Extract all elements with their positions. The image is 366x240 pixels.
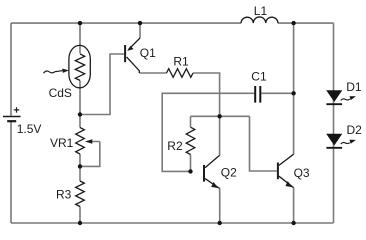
transistor Q3 emitter with NPN arrow <box>279 176 294 187</box>
photocell CdS light arrow <box>44 69 69 74</box>
wire Q2 emitter to bottom rail <box>219 189 221 224</box>
battery B1 negative plate <box>7 120 16 122</box>
junction node top CdS <box>78 21 82 25</box>
transistor Q2 emitter with NPN arrow <box>205 179 220 189</box>
svg-text:Q3: Q3 <box>294 166 310 180</box>
wire Q3 emitter to bottom rail <box>293 188 295 223</box>
junction node Q2 base / R2 bottom <box>188 169 192 173</box>
wire left rail lower (from battery -) <box>10 121 12 223</box>
potentiometer VR1 element <box>76 128 85 155</box>
LED D2 <box>326 134 342 148</box>
junction node top Q1 emitter <box>138 21 142 25</box>
wire Q3 base branch <box>250 116 277 171</box>
svg-text:R3: R3 <box>56 187 72 201</box>
junction node bottom Q3 emitter <box>291 221 295 225</box>
wire Q1 emitter stub from top rail <box>139 23 141 38</box>
wire R1 right down to Q2 collector <box>193 73 220 155</box>
svg-text:VR1: VR1 <box>50 136 74 150</box>
wire R2 top stub <box>190 116 192 127</box>
wire C1 left branch <box>162 93 254 171</box>
wire R3 bottom to bottom rail <box>79 207 81 224</box>
LED D1 light arrow <box>341 96 356 100</box>
transistor Q3 base bar <box>277 163 279 180</box>
svg-text:L1: L1 <box>254 4 268 18</box>
transistor Q1 collector <box>127 57 140 73</box>
resistor R3 <box>76 181 85 207</box>
svg-text:Q1: Q1 <box>140 46 156 60</box>
wire left rail upper (to battery +) <box>10 23 12 116</box>
junction node bottom R3 <box>78 221 82 225</box>
wire top rail right segment <box>278 22 334 24</box>
photocell CdS envelope <box>69 45 90 87</box>
photocell CdS resistive element <box>75 54 84 80</box>
battery B1 positive plate <box>3 116 21 118</box>
svg-text:D1: D1 <box>346 80 362 94</box>
svg-text:R2: R2 <box>167 139 183 153</box>
junction node top after L1 <box>291 21 295 25</box>
wire Q3 collector column to top rail node <box>293 23 295 154</box>
wire C1 right to Q3 collector column <box>261 92 293 94</box>
junction node VR1 wiper / R3 top <box>78 164 82 168</box>
svg-text:CdS: CdS <box>49 86 72 100</box>
wire CdS bottom to VR1 top <box>79 81 81 128</box>
battery plus sign <box>14 107 19 112</box>
LED D1 <box>326 90 342 104</box>
svg-text:Q2: Q2 <box>221 165 237 179</box>
wire Q1 base to CdS node <box>80 54 124 115</box>
LED D2 light arrow <box>341 140 356 144</box>
resistor R1 <box>167 69 194 78</box>
wire CdS branch top <box>79 23 81 53</box>
junction node C1 right <box>291 91 295 95</box>
svg-text:D2: D2 <box>347 123 363 137</box>
transistor Q2 collector <box>205 155 220 168</box>
wire mid horizontal node to Q3 base column <box>191 115 250 117</box>
junction node bottom Q2 emitter <box>218 221 222 225</box>
transistor Q3 collector <box>279 154 294 165</box>
junction node mid horizontal / Q2 collector column <box>217 114 221 118</box>
wire bottom rail <box>11 222 334 224</box>
wire right rail <box>333 23 335 223</box>
wire R2 bottom to Q2 base node <box>190 155 192 172</box>
wire VR1 bottom to node <box>79 154 81 181</box>
capacitor C1 plates <box>255 86 260 103</box>
svg-text:C1: C1 <box>251 70 267 84</box>
svg-text:1.5V: 1.5V <box>17 122 42 136</box>
wire top rail left segment <box>11 22 241 24</box>
transistor Q2 base bar <box>203 165 205 182</box>
resistor R2 <box>186 127 195 154</box>
transistor Q1 base bar <box>124 45 126 62</box>
transistor Q1 emitter with PNP arrow <box>127 38 140 51</box>
wire VR1 wiper loop <box>82 142 100 167</box>
potentiometer VR1 wiper arrow <box>85 139 100 144</box>
wire Q1 collector to R1 <box>139 72 166 74</box>
junction node CdS bottom / Q1 base <box>78 112 82 116</box>
svg-text:R1: R1 <box>173 55 189 69</box>
inductor L1 <box>241 17 278 23</box>
